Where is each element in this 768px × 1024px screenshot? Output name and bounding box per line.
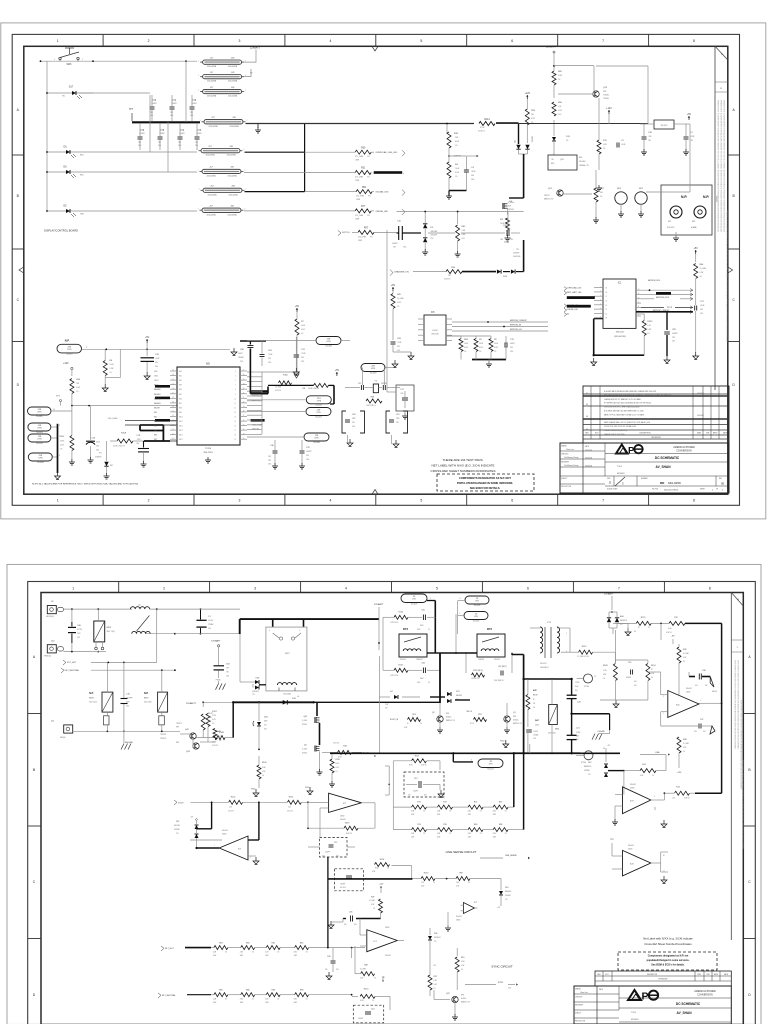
- svg-text:3: 3: [82, 59, 83, 61]
- svg-text:1100PF: 1100PF: [340, 884, 345, 886]
- svg-text:+5V: +5V: [335, 369, 340, 372]
- svg-text:19: 19: [243, 406, 245, 408]
- svg-text:1% 0.1W: 1% 0.1W: [228, 811, 234, 813]
- svg-text:14: 14: [234, 417, 236, 419]
- svg-text:2: 2: [245, 90, 246, 92]
- svg-text:R99: R99: [459, 872, 462, 874]
- svg-text:26: 26: [603, 748, 605, 750]
- svg-text:4/26-002RA: 4/26-002RA: [207, 95, 217, 98]
- svg-text:RB12: RB12: [179, 426, 183, 428]
- svg-text:369-0036: 369-0036: [431, 334, 438, 336]
- svg-text:1000PF: 1000PF: [672, 333, 678, 335]
- svg-text:75V: 75V: [588, 774, 591, 776]
- svg-text:R120: R120: [364, 988, 369, 990]
- svg-text:0.15UF: 0.15UF: [208, 620, 213, 622]
- svg-text:4: 4: [329, 499, 331, 503]
- svg-text:+5V: +5V: [295, 305, 300, 308]
- svg-text:YEL: YEL: [62, 96, 65, 98]
- svg-text:369-0021: 369-0021: [686, 688, 692, 690]
- svg-text:RB5: RB5: [179, 394, 182, 396]
- svg-text:1UF: 1UF: [500, 239, 503, 241]
- svg-text:C67 (N.P.): C67 (N.P.): [498, 666, 507, 668]
- svg-text:6: 6: [527, 587, 529, 591]
- svg-text:CROSS-REF SHEET NUMBER/COORDIN: CROSS-REF SHEET NUMBER/COORDINATES: [431, 469, 496, 473]
- svg-text:R13: R13: [676, 787, 679, 789]
- svg-text:C35: C35: [349, 912, 352, 914]
- svg-text:N.P.: N.P.: [703, 195, 709, 199]
- svg-text:3: 3: [59, 425, 60, 427]
- svg-text:REV: REV: [719, 478, 722, 480]
- svg-text:R18: R18: [343, 746, 346, 748]
- svg-text:10: 10: [234, 398, 236, 400]
- svg-text:C15: C15: [628, 662, 631, 664]
- svg-text:250V: 250V: [126, 702, 130, 704]
- svg-text:7: 7: [618, 587, 620, 591]
- svg-text:16.4K: 16.4K: [262, 767, 266, 769]
- svg-text:4740698: 4740698: [431, 235, 437, 237]
- svg-text:N.P.: N.P.: [144, 692, 149, 695]
- svg-text:R108: R108: [603, 665, 608, 667]
- svg-text:359-1017: 359-1017: [661, 125, 668, 127]
- svg-text:TRIM_IN: TRIM_IN: [466, 711, 472, 713]
- svg-text:RB8: RB8: [179, 407, 182, 409]
- svg-text:359-0021: 359-0021: [456, 916, 462, 918]
- svg-text:56.2K: 56.2K: [360, 1000, 364, 1002]
- svg-text:DWN: DWN: [697, 974, 701, 976]
- svg-text:R30: R30: [361, 147, 366, 149]
- svg-text:KPI(301)U: KPI(301)U: [44, 656, 51, 658]
- svg-text:R119: R119: [345, 822, 349, 824]
- svg-text:13: 13: [243, 433, 245, 435]
- svg-text:+5V: +5V: [687, 113, 692, 116]
- svg-text:Q14: Q14: [560, 159, 564, 161]
- svg-text:15: 15: [234, 421, 236, 423]
- svg-text:1/8W: 1/8W: [355, 160, 359, 162]
- svg-text:76V: 76V: [264, 725, 267, 727]
- svg-text:HT72Rx: HT72Rx: [584, 686, 589, 688]
- svg-text:ENGINEER: ENGINEER: [561, 462, 570, 464]
- svg-text:21: 21: [243, 397, 245, 399]
- svg-text:N.P.: N.P.: [65, 339, 70, 343]
- svg-text:22PF: 22PF: [396, 418, 400, 420]
- svg-text:R158: R158: [121, 433, 127, 435]
- svg-text:15: 15: [172, 383, 174, 385]
- svg-text:1.0K: 1.0K: [421, 882, 424, 884]
- svg-text:1100PF: 1100PF: [358, 1018, 363, 1020]
- svg-text:C14: C14: [371, 1009, 374, 1011]
- svg-text:SW10HCO: SW10HCO: [252, 691, 260, 693]
- svg-text:NUMBER: NUMBER: [641, 478, 648, 480]
- svg-text:2N4400: 2N4400: [461, 998, 466, 1000]
- svg-text:0.1W 4.75K 1%: 0.1W 4.75K 1%: [113, 446, 125, 448]
- svg-text:20_OHM: 20_OHM: [369, 900, 375, 902]
- svg-text:RB3: RB3: [154, 421, 157, 423]
- svg-text:VOUT: VOUT: [178, 802, 184, 804]
- svg-text:CHECKED: CHECKED: [561, 454, 569, 456]
- svg-text:+12V: +12V: [524, 92, 530, 95]
- svg-text:C73: C73: [197, 130, 202, 132]
- svg-text:.47UF: .47UF: [471, 171, 476, 173]
- svg-text:12: 12: [234, 407, 236, 409]
- svg-text:PRODUCTION: PRODUCTION: [561, 486, 571, 488]
- svg-text:26: 26: [243, 374, 245, 376]
- svg-text:22: 22: [172, 415, 174, 417]
- svg-text:21: 21: [172, 411, 174, 413]
- svg-text:16V: 16V: [322, 856, 325, 858]
- svg-text:359-0135: 359-0135: [494, 659, 500, 661]
- svg-text:12: 12: [638, 302, 640, 304]
- svg-text:40UF: 40UF: [264, 721, 268, 723]
- svg-text:COMPONENTS DESIGNATED AS N.P.: COMPONENTS DESIGNATED AS N.P. NOT: [459, 476, 511, 480]
- svg-text:R83: R83: [300, 990, 303, 992]
- svg-text:PNP: PNP: [176, 742, 179, 744]
- svg-text:720-0010: 720-0010: [315, 416, 322, 418]
- svg-text:R117: R117: [415, 755, 419, 757]
- svg-text:1.8K: 1.8K: [508, 988, 511, 990]
- svg-text:R74: R74: [417, 824, 420, 826]
- svg-text:D12: D12: [588, 762, 591, 764]
- svg-text:.47UF/PP: .47UF/PP: [126, 698, 133, 700]
- svg-text:CHECKED: CHECKED: [575, 997, 583, 999]
- svg-text:POPULATED/CHANGED IN SOME VERS: POPULATED/CHANGED IN SOME VERSIONS.: [457, 481, 513, 485]
- svg-text:C75: C75: [160, 130, 165, 132]
- svg-text:MPS: MPS: [579, 157, 582, 159]
- svg-text:25: 25: [243, 379, 245, 381]
- svg-text:.075UF: .075UF: [575, 682, 580, 684]
- svg-text:0.1W: 0.1W: [647, 329, 651, 331]
- svg-text:AV_SHAN: AV_SHAN: [677, 1011, 693, 1015]
- svg-text:2K: 2K: [533, 699, 535, 701]
- svg-text:369-0021: 369-0021: [340, 819, 346, 821]
- svg-text:0.1W: 0.1W: [494, 347, 498, 349]
- svg-text:4/26-002RA: 4/26-002RA: [228, 95, 238, 98]
- svg-text:R51: R51: [362, 187, 367, 189]
- svg-text:SYNC CIRCUIT: SYNC CIRCUIT: [491, 965, 513, 969]
- svg-text:1: 1: [72, 587, 74, 591]
- svg-text:R47: R47: [371, 897, 374, 899]
- svg-text:R102: R102: [231, 796, 236, 798]
- svg-text:TITLE: TITLE: [617, 466, 623, 468]
- svg-text:+12V: +12V: [606, 107, 612, 110]
- svg-text:R73: R73: [417, 802, 420, 804]
- svg-text:100PF: 100PF: [238, 353, 243, 355]
- svg-text:8: 8: [709, 587, 711, 591]
- svg-text:.1UF: .1UF: [648, 136, 651, 138]
- svg-text:4/26-002RA: 4/26-002RA: [227, 213, 237, 216]
- svg-text:720-0010: 720-0010: [315, 405, 322, 407]
- svg-text:SP2: SP2: [668, 221, 671, 223]
- svg-text:AV_SHAN: AV_SHAN: [656, 465, 672, 469]
- svg-text:FILT_HOT: FILT_HOT: [67, 662, 77, 664]
- svg-text:RB1: RB1: [154, 412, 157, 414]
- svg-text:15: 15: [243, 424, 245, 426]
- svg-text:C70: C70: [192, 100, 197, 102]
- svg-text:16V: 16V: [344, 924, 347, 926]
- svg-text:1/8W: 1/8W: [358, 240, 362, 242]
- svg-text:C19: C19: [396, 414, 399, 416]
- svg-text:See BOM & ECO's for details.: See BOM & ECO's for details.: [651, 964, 685, 967]
- svg-text:75V: 75V: [620, 624, 623, 626]
- svg-text:R149: R149: [262, 762, 267, 764]
- svg-text:0.1W: 0.1W: [464, 347, 468, 349]
- svg-text:47.4K: 47.4K: [208, 717, 212, 719]
- svg-text:CHARGER_ON: CHARGER_ON: [394, 271, 409, 274]
- svg-text:LM358: LM358: [630, 788, 634, 790]
- svg-text:720-0010: 720-0010: [36, 432, 43, 434]
- svg-text:CHK: CHK: [706, 974, 709, 976]
- svg-text:1/8: 1/8: [634, 631, 636, 633]
- svg-text:10.0K: 10.0K: [668, 628, 672, 630]
- svg-text:12: 12: [243, 438, 245, 440]
- svg-text:0.1W: 0.1W: [110, 368, 114, 370]
- svg-text:Chi-Sheng Chang: Chi-Sheng Chang: [564, 457, 578, 459]
- svg-text:RB1: RB1: [179, 376, 182, 378]
- svg-text:3: 3: [254, 587, 256, 591]
- svg-text:R12: R12: [674, 617, 677, 619]
- svg-text:3: 3: [239, 499, 241, 503]
- svg-text:D11: D11: [176, 821, 179, 823]
- svg-text:N.P.: N.P.: [533, 690, 537, 692]
- svg-text:1NUF: 1NUF: [420, 625, 424, 627]
- svg-text:0.1W: 0.1W: [397, 302, 401, 304]
- svg-text:.22UF: .22UF: [690, 136, 694, 138]
- svg-text:1H: 1H: [605, 318, 607, 320]
- svg-text:475_OHM: 475_OHM: [355, 177, 363, 179]
- svg-text:4/26-002RA: 4/26-002RA: [208, 125, 218, 128]
- svg-text:+12V: +12V: [63, 362, 69, 365]
- svg-text:1/8W: 1/8W: [355, 218, 359, 220]
- svg-text:SWITCH: SWITCH: [342, 232, 350, 234]
- svg-text:359-0723: 359-0723: [540, 663, 547, 665]
- svg-text:+12V: +12V: [379, 884, 384, 886]
- svg-text:Clare Lee: Clare Lee: [566, 449, 574, 451]
- svg-text:16V: 16V: [325, 969, 328, 971]
- svg-text:Clare Lee: Clare Lee: [580, 992, 588, 994]
- svg-text:RB2: RB2: [179, 380, 182, 382]
- svg-text:K3C06: K3C06: [432, 330, 437, 332]
- svg-text:+5V: +5V: [145, 336, 150, 339]
- svg-text:1/8W: 1/8W: [462, 234, 466, 236]
- svg-text:26: 26: [172, 433, 174, 435]
- svg-text:720-1021: 720-1021: [473, 620, 480, 622]
- svg-text:R162: R162: [647, 321, 653, 323]
- svg-text:359-7263: 359-7263: [203, 452, 213, 454]
- svg-text:6: 6: [511, 499, 513, 503]
- svg-text:640-0259: 640-0259: [668, 481, 681, 485]
- svg-text:MODELE: MODELE: [631, 1019, 639, 1021]
- svg-text:R114: R114: [484, 119, 490, 121]
- svg-text:R152 (N.P.): R152 (N.P.): [473, 670, 483, 672]
- svg-text:.01UF: .01UF: [700, 305, 704, 307]
- svg-text:1.0K: 1.0K: [229, 807, 232, 809]
- svg-text:75V: 75V: [385, 708, 388, 710]
- svg-text:REV: REV: [597, 974, 600, 976]
- svg-text:0.1W 1%: 0.1W 1%: [333, 742, 340, 744]
- svg-text:LM358: LM358: [628, 849, 632, 851]
- svg-text:1100PF: 1100PF: [325, 852, 330, 854]
- svg-text:ONLINE_LED: ONLINE_LED: [567, 309, 579, 311]
- svg-text:17: 17: [243, 415, 245, 417]
- svg-text:MMBT44_75V: MMBT44_75V: [461, 1002, 470, 1004]
- svg-text:1.0M 2.2M 1%: 1.0M 2.2M 1%: [366, 405, 376, 407]
- svg-text:27.4K: 27.4K: [212, 715, 216, 717]
- svg-text:ENGINEER: ENGINEER: [575, 1005, 584, 1007]
- svg-text:3: 3: [239, 39, 241, 43]
- svg-text:RB2: RB2: [154, 417, 157, 419]
- svg-text:REVISIONS: REVISIONS: [659, 979, 668, 981]
- svg-text:RB11: RB11: [179, 421, 183, 423]
- svg-text:(359-HC595): (359-HC595): [614, 336, 626, 338]
- svg-text:250V: 250V: [77, 633, 81, 635]
- svg-text:7: 7: [602, 499, 604, 503]
- svg-text:SHEET: SHEET: [700, 489, 705, 491]
- svg-text:0.1W: 0.1W: [700, 272, 704, 274]
- svg-text:6: 6: [511, 39, 513, 43]
- svg-text:OF BYP SOF GRS CRS PORT 090/BB: OF BYP SOF GRS CRS PORT 090/BB 01-049: [604, 426, 636, 428]
- svg-text:2K: 2K: [638, 627, 640, 629]
- svg-text:R62: R62: [300, 943, 303, 945]
- svg-text:1.0K: 1.0K: [456, 882, 459, 884]
- svg-text:LB-1638(U)T: LB-1638(U)T: [540, 667, 549, 669]
- svg-text:C74: C74: [180, 130, 185, 132]
- svg-text:SYNC: SYNC: [498, 982, 504, 984]
- svg-text:2N4401+: 2N4401+: [446, 717, 452, 719]
- svg-text:1100PF: 1100PF: [413, 791, 418, 793]
- svg-text:.01UF: .01UF: [155, 358, 159, 360]
- svg-text:4740698: 4740698: [505, 895, 511, 897]
- svg-text:RB4: RB4: [179, 389, 182, 391]
- svg-text:R101: R101: [289, 796, 294, 798]
- svg-text:2: 2: [148, 39, 150, 43]
- svg-text:R84: R84: [271, 990, 274, 992]
- svg-text:SW-0386: SW-0386: [174, 825, 180, 827]
- svg-text:2N2222: 2N2222: [544, 195, 550, 197]
- svg-text:20_OHM: 20_OHM: [360, 968, 366, 970]
- svg-text:100PF: 100PF: [510, 343, 515, 345]
- svg-text:EEPROM_DIO1: EEPROM_DIO1: [648, 280, 660, 282]
- svg-text:N.P.: N.P.: [681, 195, 687, 199]
- svg-text:OF: OF: [716, 489, 718, 491]
- svg-text:369-0021: 369-0021: [222, 830, 228, 832]
- svg-text:1.0K: 1.0K: [288, 807, 291, 809]
- svg-text:C65: C65: [421, 610, 424, 612]
- svg-text:D17: D17: [69, 86, 74, 89]
- svg-text:(FOR SITE: (FOR SITE: [667, 227, 674, 229]
- svg-text:FILT_NEUTRAL: FILT_NEUTRAL: [65, 669, 80, 672]
- svg-text:RB7: RB7: [179, 403, 182, 405]
- svg-text:25: 25: [172, 429, 174, 431]
- svg-text:D25: D25: [515, 140, 517, 143]
- svg-text:5: 5: [420, 39, 422, 43]
- svg-text:0.1W: 0.1W: [301, 329, 305, 331]
- svg-text:1/8W: 1/8W: [356, 199, 360, 201]
- svg-text:T2N2576: T2N2576: [160, 734, 166, 736]
- svg-text:R14: R14: [642, 764, 645, 766]
- svg-text:FILT_HOT: FILT_HOT: [165, 948, 175, 950]
- svg-text:5: 5: [436, 587, 438, 591]
- svg-text:R69: R69: [474, 824, 477, 826]
- svg-text:.075UF: .075UF: [576, 732, 581, 734]
- svg-text:+5V: +5V: [391, 284, 396, 287]
- svg-text:3: 3: [86, 347, 87, 349]
- svg-text:720-0303: 720-0303: [66, 354, 73, 356]
- svg-text:720-0010: 720-0010: [36, 443, 43, 445]
- svg-text:720-1021: 720-1021: [487, 768, 494, 770]
- svg-text:NPN: NPN: [513, 716, 516, 718]
- svg-text:1000PF: 1000PF: [306, 451, 312, 453]
- svg-text:2K: 2K: [651, 669, 653, 671]
- svg-text:EEPROM_SK: EEPROM_SK: [510, 325, 522, 327]
- svg-text:19: 19: [234, 439, 236, 441]
- svg-text:22PF/BB: 22PF/BB: [381, 383, 387, 385]
- svg-text:0.1W: 0.1W: [208, 721, 212, 723]
- svg-text:4: 4: [54, 59, 55, 61]
- svg-text:R72: R72: [443, 802, 446, 804]
- svg-text:C72: C72: [152, 100, 157, 102]
- svg-text:20_OHM: 20_OHM: [683, 653, 689, 655]
- svg-text:C38: C38: [702, 670, 705, 672]
- svg-text:SW10HCO: SW10HCO: [434, 937, 442, 939]
- svg-text:1/2W 10 5%: 1/2W 10 5%: [471, 678, 480, 680]
- svg-text:MMBT44_75V: MMBT44_75V: [513, 723, 522, 725]
- svg-text:DC SCHEMATIC: DC SCHEMATIC: [676, 1002, 701, 1006]
- svg-text:1: 1: [198, 75, 199, 77]
- svg-text:SP3: SP3: [692, 221, 695, 223]
- svg-text:AMERICAN POWER: AMERICAN POWER: [673, 446, 695, 449]
- svg-text:Cross-Ref Sheet Number/Coordin: Cross-Ref Sheet Number/Coordinates: [644, 942, 692, 946]
- svg-text:FILT_NEUTRAL: FILT_NEUTRAL: [162, 994, 176, 997]
- svg-text:250V: 250V: [417, 629, 420, 631]
- svg-text:12VBATT: 12VBATT: [604, 593, 614, 596]
- svg-text:LM358: LM358: [456, 920, 460, 922]
- svg-text:RB13: RB13: [179, 430, 183, 432]
- svg-text:75V: 75V: [434, 941, 437, 943]
- svg-text:16V: 16V: [705, 685, 708, 687]
- svg-text:18: 18: [172, 397, 174, 399]
- svg-text:1: 1: [57, 39, 59, 43]
- svg-text:EEPROM_CS/BKUP: EEPROM_CS/BKUP: [510, 320, 527, 322]
- svg-text:50V: 50V: [352, 422, 355, 424]
- svg-text:1E: 1E: [605, 305, 607, 307]
- svg-text:SEE BOM FOR DETAILS.: SEE BOM FOR DETAILS.: [470, 486, 501, 490]
- svg-text:RB6: RB6: [154, 435, 157, 437]
- svg-text:DESCRIPTION: DESCRIPTION: [647, 974, 657, 976]
- svg-text:4740698: 4740698: [174, 829, 180, 831]
- svg-text:DC SCHEMATIC: DC SCHEMATIC: [655, 456, 680, 460]
- svg-text:.1UF: .1UF: [400, 393, 403, 395]
- svg-text:0.1W: 0.1W: [212, 719, 216, 721]
- svg-text:C12: C12: [414, 778, 417, 780]
- svg-text:05: 05: [721, 482, 725, 486]
- svg-text:4/10/2002: 4/10/2002: [697, 415, 704, 417]
- svg-text:12VBATT: 12VBATT: [546, 46, 557, 49]
- svg-text:C18: C18: [352, 414, 355, 416]
- svg-text:0.1W 1%: 0.1W 1%: [212, 745, 219, 747]
- svg-text:RB3: RB3: [179, 385, 182, 387]
- svg-text:S_OHM: S_OHM: [302, 749, 308, 751]
- svg-text:R60: R60: [246, 943, 249, 945]
- svg-text:14: 14: [172, 379, 174, 381]
- svg-text:PNP: PNP: [176, 727, 179, 729]
- svg-text:R153: R153: [582, 646, 587, 648]
- svg-text:4/26-002RA: 4/26-002RA: [228, 65, 238, 68]
- svg-text:RY3: RY3: [403, 627, 409, 631]
- svg-text:CHGND: CHGND: [597, 731, 605, 733]
- svg-text:4/26-002RA: 4/26-002RA: [227, 175, 237, 178]
- svg-text:THERE ARE 164 TEST PADS.: THERE ARE 164 TEST PADS.: [443, 458, 484, 462]
- svg-text:RB0: RB0: [179, 371, 182, 373]
- svg-text:4: 4: [329, 39, 331, 43]
